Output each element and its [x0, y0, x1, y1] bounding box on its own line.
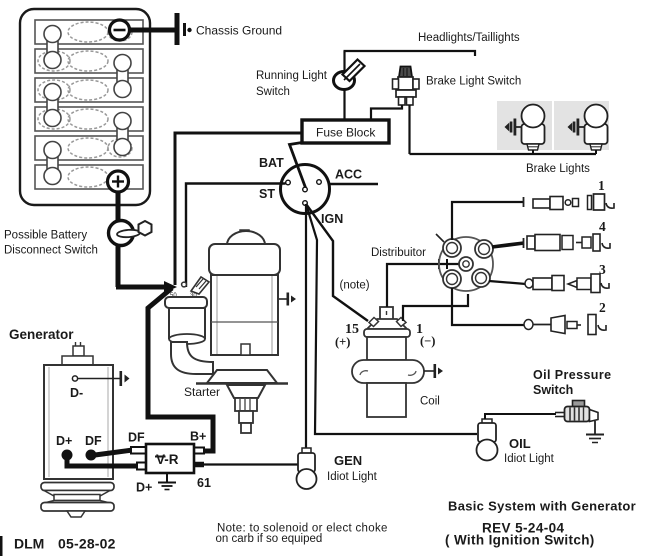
brake light bulb L2	[554, 101, 609, 154]
svg-text:IGN: IGN	[321, 212, 343, 226]
generator terminal D- and ground	[72, 371, 129, 386]
running light switch S2	[334, 60, 365, 90]
svg-text:3: 3	[599, 262, 606, 277]
wire OIL light to oil pressure switch	[485, 414, 556, 419]
svg-text:Running Light: Running Light	[256, 70, 328, 82]
GEN idiot light L3	[297, 448, 317, 489]
battery disconnect switch S1	[109, 221, 152, 246]
svg-text:Switch: Switch	[533, 383, 573, 397]
wire generator DF to regulator DF	[95, 450, 133, 455]
wire battery negative to chassis ground	[128, 28, 176, 33]
svg-text:D-: D-	[70, 386, 83, 400]
svg-text:Starter: Starter	[184, 385, 220, 399]
wire distributor to plug 2	[452, 288, 524, 325]
wire ignition IGN to coil 15 (note)	[306, 204, 368, 321]
coil bracket ground	[424, 364, 443, 378]
svg-text:Distribuitor: Distribuitor	[371, 247, 426, 259]
brake light switch S3	[393, 67, 420, 106]
wire ignition ST to solenoid 50	[186, 184, 286, 288]
svg-text:Brake Lights: Brake Lights	[526, 163, 590, 175]
fuse block	[302, 120, 389, 143]
svg-text:DF: DF	[85, 434, 102, 448]
wire regulator B+ to starter solenoid 30	[148, 288, 213, 451]
svg-text:Switch: Switch	[256, 86, 290, 98]
wire coil HT to distributor center	[387, 264, 459, 307]
brake lights bus wire	[410, 153, 597, 155]
svg-text:D+: D+	[56, 434, 72, 448]
wire regulator 61 to GEN idiot light	[194, 462, 204, 468]
wire fuse block to running light switch and headlights	[344, 51, 476, 120]
svg-text:(−): (−)	[420, 334, 435, 348]
coil T1	[352, 307, 424, 417]
svg-text:(+): (+)	[335, 335, 350, 349]
battery negative terminal	[110, 20, 130, 40]
svg-text:V-R: V-R	[156, 452, 179, 467]
svg-text:4: 4	[599, 219, 606, 234]
generator terminal DF	[86, 450, 97, 461]
svg-text:D+: D+	[136, 481, 152, 495]
svg-text:Oil Pressure: Oil Pressure	[533, 368, 611, 382]
brake light bulb L1	[497, 101, 552, 154]
generator G1	[44, 342, 113, 479]
svg-text:Fuse Block: Fuse Block	[316, 126, 376, 140]
wire ignition ACC	[330, 183, 378, 186]
svg-text:Brake Light Switch: Brake Light Switch	[426, 76, 521, 88]
svg-text:ST: ST	[259, 187, 275, 201]
oil pressure switch S5	[555, 401, 598, 422]
wire brake switch to brake lights bus	[408, 105, 410, 154]
svg-text:GEN: GEN	[334, 453, 362, 468]
wire fuse block BAT to ignition switch	[290, 143, 307, 190]
svg-text:Disconnect Switch: Disconnect Switch	[4, 245, 98, 257]
svg-text:Possible Battery: Possible Battery	[4, 230, 87, 242]
wire fuse block to solenoid 30	[175, 133, 302, 285]
chassis ground	[175, 13, 192, 45]
ignition switch S4	[281, 165, 330, 214]
svg-text:Coil: Coil	[420, 396, 440, 408]
OIL idiot light L4	[477, 419, 498, 461]
spark plug 1	[524, 178, 615, 210]
starter solenoid	[165, 277, 213, 374]
scan artifact bar	[0, 536, 3, 556]
generator pulley	[41, 483, 114, 518]
battery positive terminal	[108, 171, 129, 192]
voltage regulator VR1	[131, 444, 204, 473]
svg-text:DF: DF	[128, 431, 145, 445]
wire generator D+ to regulator D+	[67, 457, 139, 466]
svg-text:BAT: BAT	[259, 156, 284, 170]
wire distributor to plug 4	[492, 243, 524, 247]
svg-text:(note): (note)	[340, 280, 370, 292]
generator terminal D+	[62, 450, 73, 461]
wire brake switch to fuse block	[371, 105, 402, 120]
wire ignition IGN to GEN idiot light	[305, 204, 307, 449]
svg-text:( With Ignition Switch): ( With Ignition Switch)	[445, 533, 595, 548]
wire ignition IGN to OIL idiot light	[306, 204, 477, 434]
distributor leader line	[436, 234, 444, 242]
svg-text:Basic System with Generator: Basic System with Generator	[448, 499, 636, 514]
svg-text:Idiot Light: Idiot Light	[504, 453, 555, 465]
distributor cap	[439, 237, 493, 291]
wire distributor to plug 1	[452, 202, 524, 240]
wire distributor to plug 3	[489, 281, 526, 284]
svg-text:Chassis Ground: Chassis Ground	[196, 24, 282, 38]
svg-text:OIL: OIL	[509, 436, 531, 451]
spark plug 4	[524, 219, 611, 251]
oil switch ground	[586, 421, 604, 443]
svg-text:on carb if so equiped: on carb if so equiped	[216, 533, 323, 545]
arrowhead into solenoid terminal 30	[164, 281, 177, 293]
svg-text:B+: B+	[190, 430, 206, 444]
svg-text:2: 2	[599, 300, 606, 315]
svg-text:Idiot Light: Idiot Light	[327, 471, 378, 483]
battery BAT1	[20, 9, 150, 205]
spark plug 3	[525, 262, 609, 293]
spark plug 2	[524, 300, 606, 335]
svg-text:DLM: DLM	[14, 536, 44, 552]
svg-text:61: 61	[197, 476, 211, 490]
svg-text:ACC: ACC	[335, 168, 362, 182]
svg-text:Headlights/Taillights: Headlights/Taillights	[418, 32, 520, 44]
svg-text:1: 1	[598, 178, 605, 193]
wire battery positive cable to disconnect switch and starter 30	[116, 191, 166, 287]
svg-text:05-28-02: 05-28-02	[58, 536, 116, 552]
svg-text:Generator: Generator	[9, 327, 74, 342]
starter M1	[196, 230, 288, 433]
wire coil 1 to distributor points	[403, 294, 468, 321]
regulator ground	[158, 473, 176, 490]
starter ground	[279, 293, 296, 306]
